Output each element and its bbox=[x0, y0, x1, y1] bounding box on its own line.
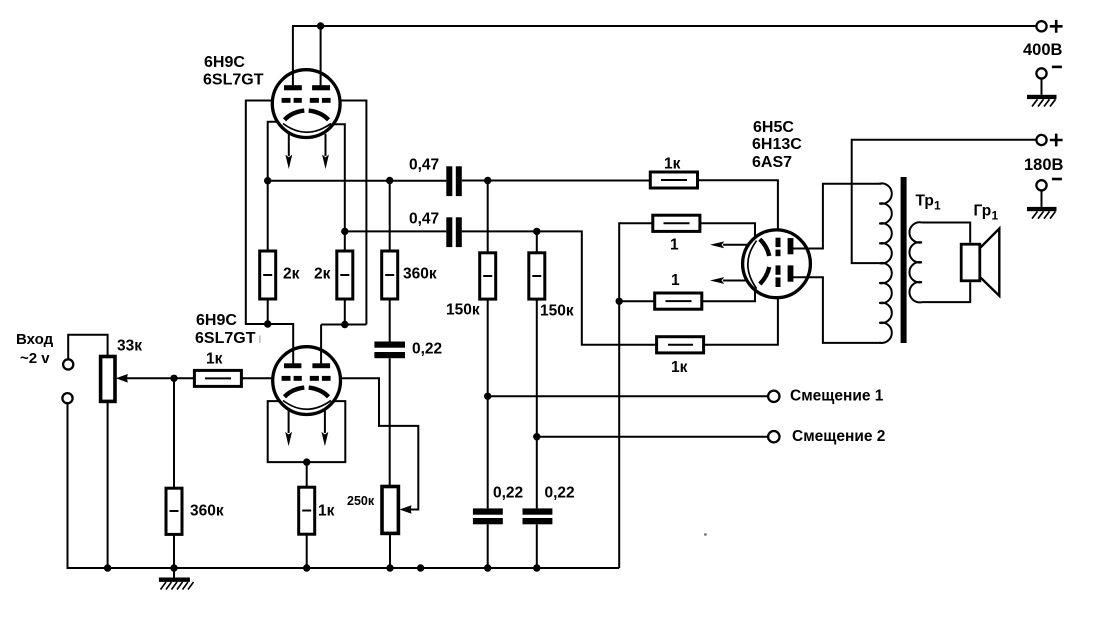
svg-text:1: 1 bbox=[671, 272, 680, 289]
svg-text:Смещение 2: Смещение 2 bbox=[792, 428, 885, 445]
tube V2 6N9S envelope bbox=[273, 347, 341, 415]
potentiometer 250k bbox=[382, 487, 398, 569]
wire V2 cathode hood bbox=[268, 401, 346, 462]
junction y180 at 360k bbox=[386, 177, 393, 184]
junction on top rail bbox=[317, 22, 324, 29]
transformer Tr1 core bbox=[901, 177, 907, 343]
tube V1 grid dashes bbox=[282, 98, 331, 103]
svg-text:Смещение 1: Смещение 1 bbox=[790, 388, 884, 405]
label 360k upper bbox=[403, 266, 437, 283]
svg-text:1к: 1к bbox=[664, 156, 681, 173]
label 0,47 lower bbox=[409, 211, 439, 228]
wire 0,47 lower input bbox=[345, 230, 447, 232]
capacitor 0,47 lower bbox=[446, 217, 462, 247]
label 2k right bbox=[314, 266, 331, 283]
label 0,22 bottom right bbox=[545, 485, 575, 502]
tube V3 heater arc bbox=[748, 241, 757, 289]
junction rail at 33k bbox=[104, 564, 111, 571]
wire transformer center tap to +180V bbox=[852, 140, 1037, 263]
svg-text:0,22: 0,22 bbox=[412, 341, 442, 358]
junction 2k right bottom bbox=[341, 321, 348, 328]
junction rail at 1k cathode bbox=[303, 564, 310, 571]
wire bias 1 bbox=[488, 395, 768, 397]
svg-text:6Н9С: 6Н9С bbox=[204, 54, 245, 71]
label V2 type bbox=[195, 312, 256, 347]
svg-text:Гр: Гр bbox=[974, 203, 992, 220]
tube V3 cathode arcs bbox=[760, 239, 769, 284]
tube V1 cathode lead arrows bbox=[285, 133, 329, 169]
wire 0,47 lower output to 1k grid lower bbox=[462, 231, 657, 344]
svg-text:150к: 150к bbox=[446, 302, 480, 319]
label bias 2 bbox=[792, 428, 885, 445]
wire bias 2 bbox=[537, 436, 768, 438]
svg-text:1: 1 bbox=[670, 237, 679, 254]
tube V3 anode plates bbox=[788, 238, 794, 282]
label 250k bbox=[347, 494, 375, 508]
svg-text:1: 1 bbox=[934, 199, 941, 213]
junction bias 1 bbox=[484, 393, 491, 400]
wire input to pot 33k bbox=[68, 335, 107, 360]
wire pot 33k to rail bbox=[107, 401, 109, 568]
tube V3 grid dashes bbox=[776, 238, 781, 287]
svg-text:1: 1 bbox=[992, 209, 999, 223]
tube V3 6N5S envelope bbox=[743, 230, 811, 298]
svg-text:6Н5С: 6Н5С bbox=[753, 119, 794, 136]
label V3 type bbox=[752, 119, 802, 171]
resistor 1 upper bbox=[653, 215, 700, 231]
pot 33k wiper arrow bbox=[116, 374, 174, 383]
svg-text:Вход: Вход bbox=[16, 331, 54, 348]
resistor 360k lower bbox=[166, 488, 182, 568]
resistor 1k cathode V2 bbox=[299, 462, 315, 568]
label 0,47 upper bbox=[409, 157, 439, 174]
tube V1 heater arc bbox=[283, 124, 331, 133]
wire top +400V rail bbox=[292, 25, 1036, 27]
junction wiper node bbox=[170, 375, 177, 382]
label +400V plus bbox=[1050, 20, 1063, 33]
speaker Gr1 bbox=[961, 229, 999, 296]
svg-text:150к: 150к bbox=[540, 303, 574, 320]
junction y180 at 2k left bbox=[264, 177, 271, 184]
tube V2 heater arc bbox=[283, 401, 331, 410]
tube V1 cathode arcs bbox=[285, 111, 329, 120]
resistor 150k right bbox=[529, 231, 545, 508]
wire wiper node down to 360k bbox=[173, 378, 175, 488]
wire V1 anode leads to rail bbox=[293, 26, 321, 86]
tube V2 cathode lead arrows bbox=[285, 410, 328, 446]
resistor 360k upper bbox=[382, 181, 398, 342]
wire bottom ground rail bbox=[68, 403, 620, 568]
wire V1 cathode hood left / resistor chain bbox=[268, 122, 279, 251]
junction rail at 360k bbox=[170, 564, 177, 571]
ground at -180V bbox=[1027, 191, 1057, 219]
wire 1k top to V3 grid bbox=[698, 180, 778, 230]
resistor 1 lower bbox=[655, 293, 702, 309]
wire wiper to 1k grid resistor bbox=[174, 377, 194, 379]
label 0,22 middle bbox=[412, 341, 442, 358]
terminal bias 1 bbox=[768, 391, 779, 402]
label bias 1 bbox=[790, 388, 884, 405]
label Tr1 bbox=[916, 193, 942, 213]
label 1 upper bbox=[670, 237, 679, 254]
wire 1 lower left leg bbox=[619, 300, 655, 302]
svg-text:~2 v: ~2 v bbox=[20, 350, 50, 367]
svg-text:1к: 1к bbox=[206, 351, 223, 368]
tube V1 anode plates bbox=[284, 85, 330, 90]
label +180V plus bbox=[1050, 134, 1063, 147]
junction 150k right top bbox=[533, 228, 540, 235]
wire V3 anode lower to transformer bbox=[791, 277, 882, 343]
junction rail stray bbox=[417, 564, 424, 571]
wire 1k bottom to V3 grid bbox=[704, 298, 778, 345]
svg-text:1к: 1к bbox=[671, 359, 688, 376]
wire 1k to V2 grid left bbox=[241, 377, 272, 379]
capacitor 0,47 upper bbox=[446, 166, 462, 196]
terminal +180V bbox=[1036, 135, 1046, 145]
resistor 1k bottom (to V3 grid lower) bbox=[657, 337, 704, 353]
svg-text:2к: 2к bbox=[283, 266, 300, 283]
svg-text:6SL7GT: 6SL7GT bbox=[203, 72, 264, 89]
label 1k input bbox=[206, 351, 223, 368]
svg-text:1к: 1к bbox=[318, 503, 335, 520]
label 180V bbox=[1024, 156, 1064, 174]
wire 1 upper right to V3 cathode upper bbox=[700, 223, 755, 237]
resistor 2k right bbox=[337, 251, 353, 325]
svg-text:250к: 250к bbox=[347, 494, 375, 508]
junction 0,47 lower wire start bbox=[341, 228, 348, 235]
wire V1 grid right to V2 right anode bbox=[321, 101, 366, 365]
svg-text:400В: 400В bbox=[1023, 41, 1063, 59]
label 150k right bbox=[540, 303, 574, 320]
tube V2 cathode arcs bbox=[285, 388, 329, 397]
wire V2 grid right to feedback pot wiper bbox=[341, 378, 419, 514]
junction V2 cathode bbox=[303, 458, 310, 465]
resistor 2k left bbox=[260, 251, 276, 324]
junction rail at 0,22 left bbox=[484, 564, 491, 571]
label 1 lower bbox=[671, 272, 680, 289]
resistor 150k left bbox=[480, 181, 496, 509]
terminal bias 2 bbox=[768, 431, 779, 442]
svg-text:0,22: 0,22 bbox=[493, 485, 523, 502]
label 2k left bbox=[283, 266, 300, 283]
svg-text:0,47: 0,47 bbox=[409, 211, 439, 228]
terminal -180V bbox=[1036, 180, 1046, 190]
label 400V bbox=[1023, 41, 1063, 59]
junction rail at 0,22 right bbox=[533, 564, 540, 571]
svg-text:6AS7: 6AS7 bbox=[752, 154, 792, 171]
resistor 1k input bbox=[194, 370, 241, 386]
svg-text:0,47: 0,47 bbox=[409, 157, 439, 174]
label input bbox=[16, 331, 54, 367]
input terminal lower bbox=[62, 393, 72, 403]
label -400V minus bbox=[1052, 66, 1062, 69]
tube V3 cathode lead arrows bbox=[710, 241, 749, 284]
junction grid-left net bbox=[264, 320, 271, 327]
label 360k lower bbox=[190, 503, 224, 520]
speck artifact bbox=[704, 533, 707, 536]
label 1k bottom bbox=[671, 359, 688, 376]
wire V3 anode upper to transformer bbox=[791, 184, 882, 249]
junction 150k left top bbox=[484, 177, 491, 184]
potentiometer 33k bbox=[101, 357, 115, 402]
label 1k top bbox=[664, 156, 681, 173]
label -180V minus bbox=[1052, 178, 1062, 181]
transformer Tr1 primary winding bbox=[879, 183, 892, 342]
wire 1 upper left leg bbox=[619, 223, 653, 568]
label V1 type bbox=[203, 54, 264, 89]
ground main bbox=[159, 568, 194, 590]
wire 0,47 upper output bbox=[462, 180, 651, 182]
svg-text:2к: 2к bbox=[314, 266, 331, 283]
transformer Tr1 secondary winding bbox=[909, 222, 921, 302]
label 1k cathode bbox=[318, 503, 335, 520]
svg-text:6Н9С: 6Н9С bbox=[196, 312, 237, 329]
wire V1 cathode hood right / 2k right chain bbox=[334, 124, 345, 251]
tube V1 6N9S envelope bbox=[272, 70, 340, 138]
wire 1 lower right to V3 cathode lower bbox=[702, 290, 755, 301]
svg-text:33к: 33к bbox=[117, 338, 142, 355]
label 150k left bbox=[446, 302, 480, 319]
input terminal upper bbox=[63, 359, 73, 369]
capacitor 0,22 bottom right bbox=[523, 508, 553, 568]
capacitor 0,22 bottom left bbox=[473, 508, 503, 568]
junction 1-resistors bbox=[616, 298, 623, 305]
svg-text:6Н13С: 6Н13С bbox=[752, 136, 802, 153]
ground at -400V bbox=[1027, 79, 1057, 107]
tube V2 anode plates bbox=[284, 363, 330, 368]
svg-text:360к: 360к bbox=[190, 503, 224, 520]
svg-text:6SL7GT: 6SL7GT bbox=[195, 330, 256, 347]
junction bias 2 bbox=[533, 433, 540, 440]
wire secondary to speaker bbox=[922, 223, 970, 303]
tube V2 grid dashes bbox=[282, 376, 331, 381]
svg-text:0,22: 0,22 bbox=[545, 485, 575, 502]
svg-text:Тр: Тр bbox=[916, 193, 934, 210]
wire cathode bus y180 bbox=[268, 180, 447, 182]
junction rail at 250k bbox=[386, 564, 393, 571]
label artifact semicolon bbox=[259, 336, 260, 344]
terminal +400V bbox=[1036, 21, 1046, 31]
wire V1 grid left to V2 left anode bbox=[246, 101, 293, 365]
label 0,22 bottom left bbox=[493, 485, 523, 502]
label 33k bbox=[117, 338, 142, 355]
resistor 1k top (to V3 grid upper) bbox=[650, 172, 697, 188]
svg-text:180В: 180В bbox=[1024, 156, 1064, 174]
svg-text:360к: 360к bbox=[403, 266, 437, 283]
capacitor 0,22 middle bbox=[374, 342, 405, 487]
label Gr1 bbox=[974, 203, 999, 223]
terminal -400V bbox=[1036, 68, 1046, 78]
